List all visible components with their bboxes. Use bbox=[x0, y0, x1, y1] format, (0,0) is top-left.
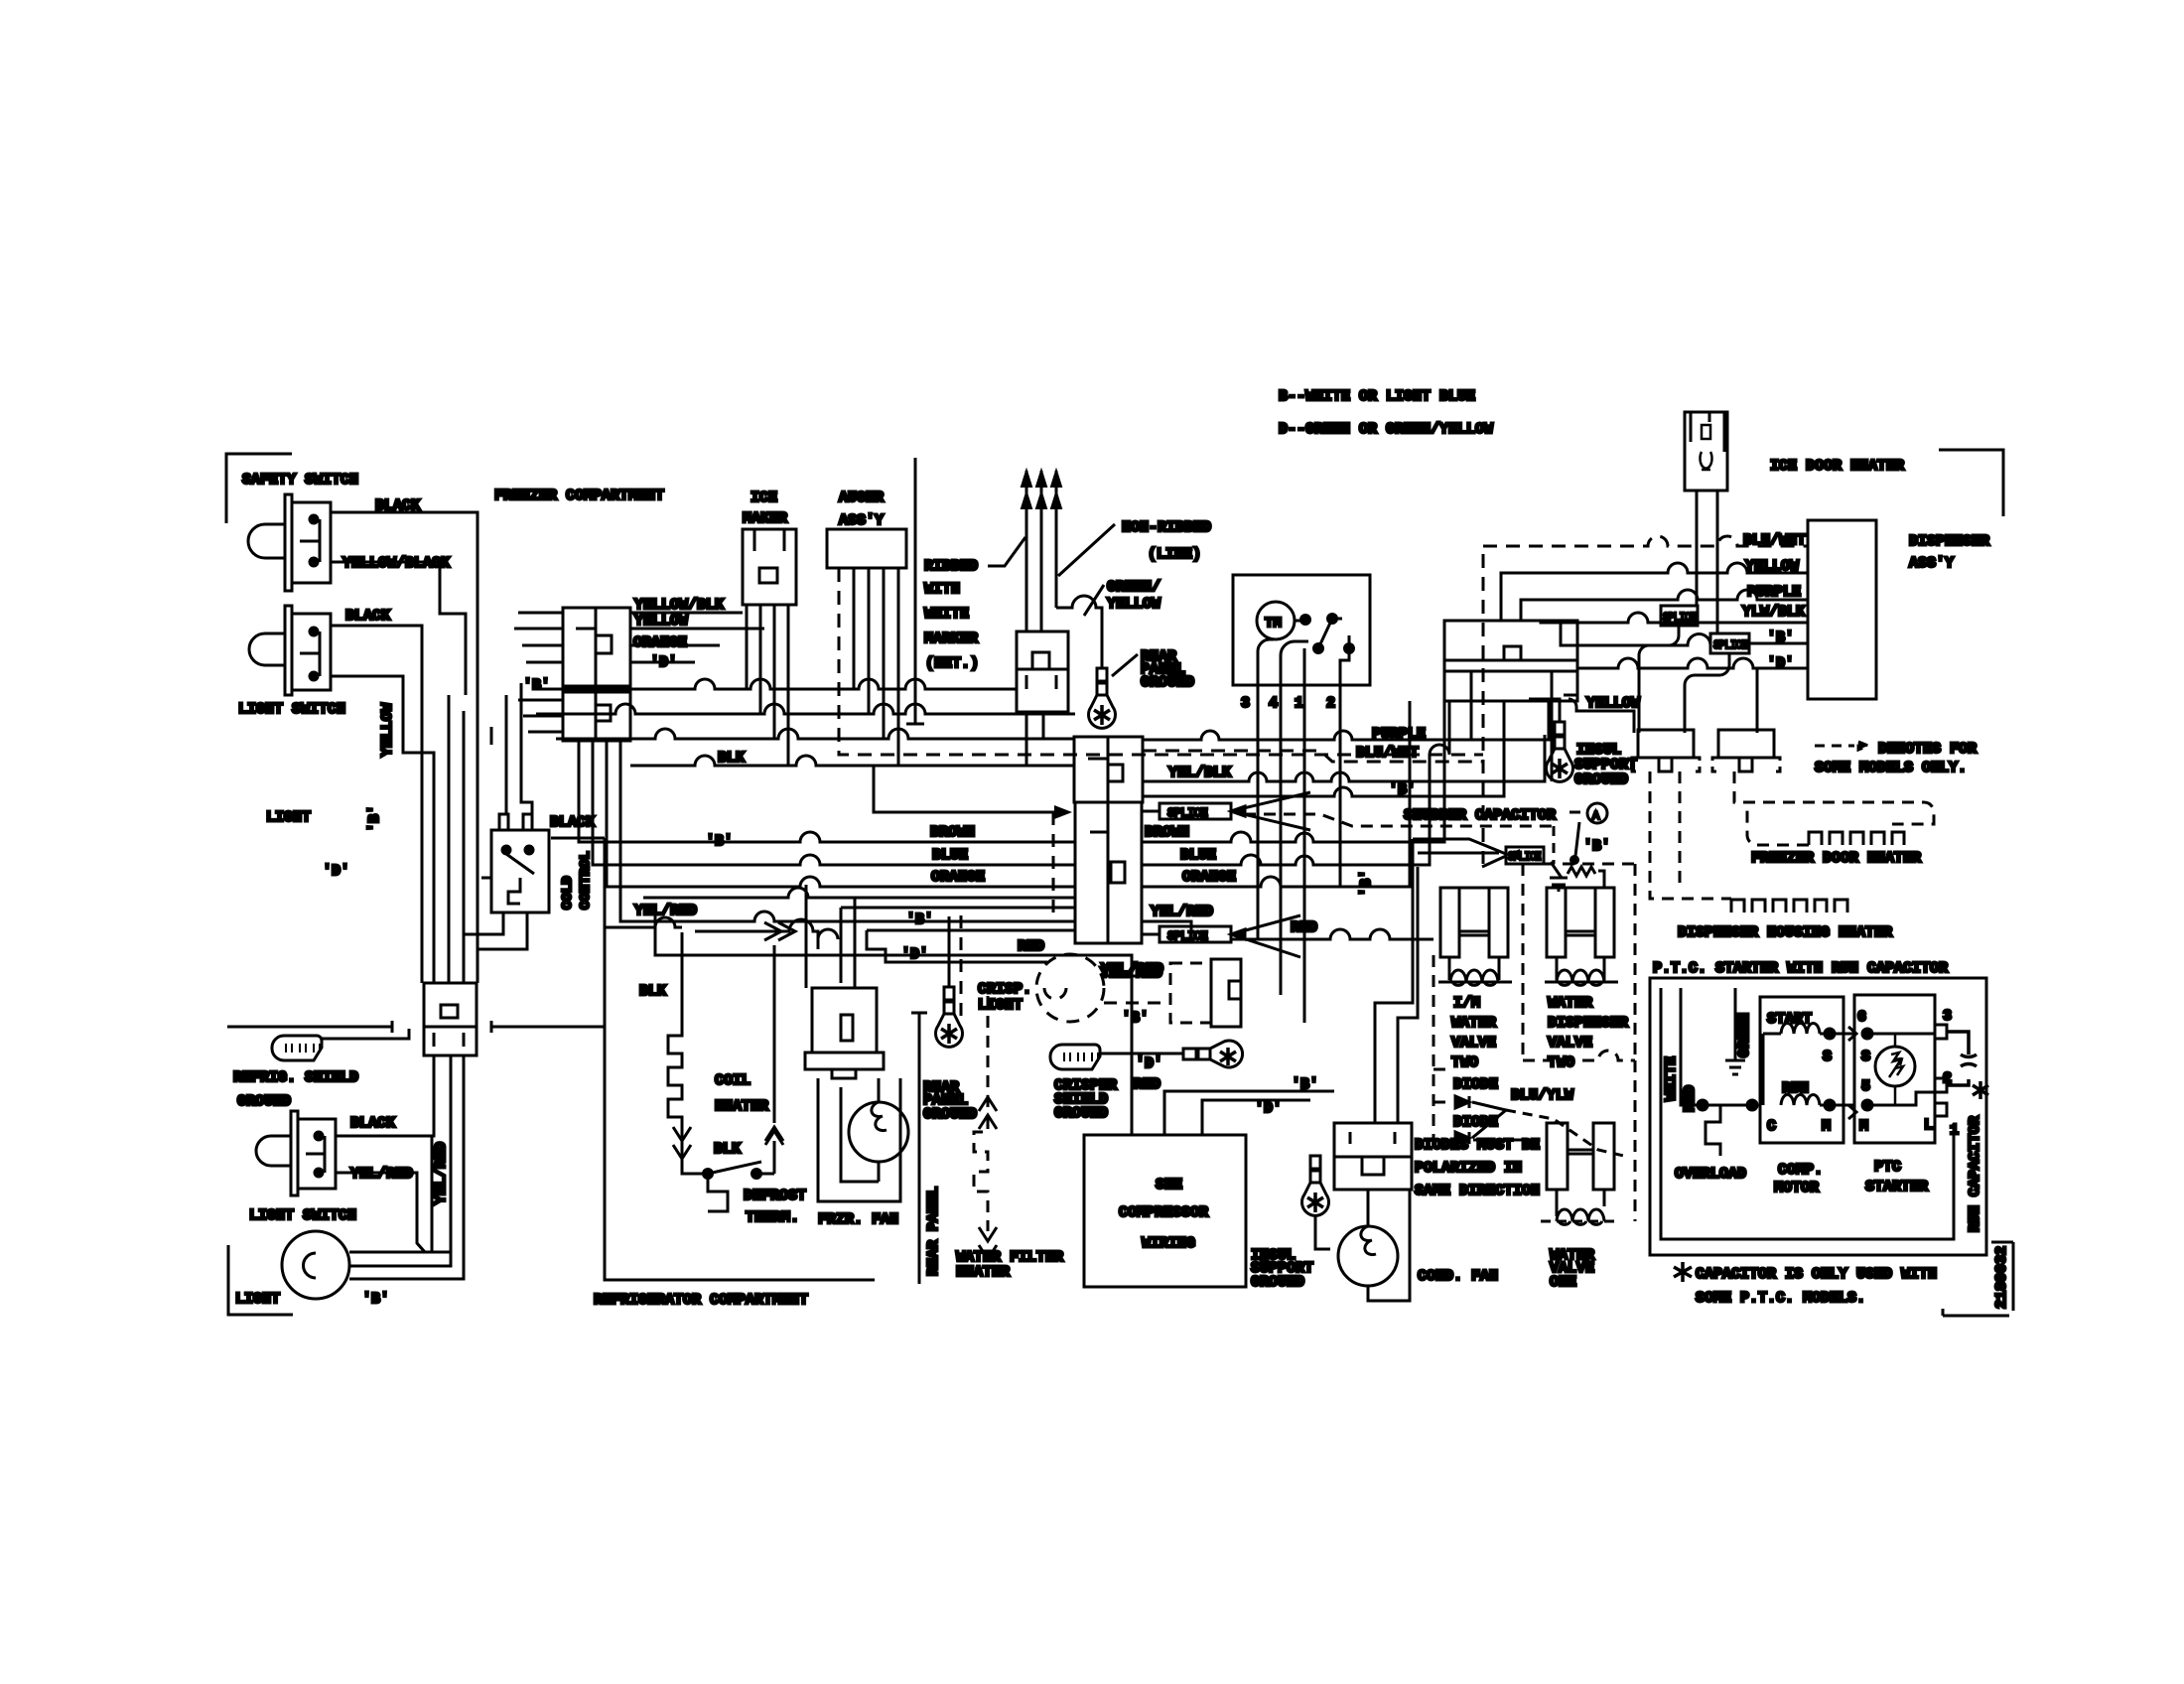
svg-text:GROUND: GROUND bbox=[1251, 1274, 1304, 1291]
circled A bbox=[1587, 803, 1607, 823]
svg-text:AUGER: AUGER bbox=[839, 490, 884, 506]
run coil bbox=[1781, 1095, 1854, 1106]
svg-text:ORANGE: ORANGE bbox=[1182, 869, 1236, 886]
svg-text:WHITE: WHITE bbox=[1663, 1056, 1680, 1101]
svg-text:2: 2 bbox=[1326, 695, 1335, 712]
svg-text:THERM.: THERM. bbox=[746, 1209, 799, 1226]
bus bar right segment bbox=[491, 1021, 605, 1033]
wire cold control to boundary bbox=[551, 837, 605, 840]
snubber capacitor sym bbox=[1571, 857, 1578, 864]
svg-text:COLD: COLD bbox=[560, 876, 576, 910]
svg-text:BLK: BLK bbox=[639, 983, 666, 1000]
cond fan connector bbox=[1334, 1123, 1412, 1190]
connector CN1 bbox=[563, 608, 630, 686]
ptc square terminals bbox=[1935, 1025, 1947, 1039]
svg-text:'B': 'B' bbox=[1358, 870, 1375, 897]
svg-text:TWO: TWO bbox=[1451, 1054, 1478, 1071]
svg-text:GROUND: GROUND bbox=[1054, 1105, 1108, 1122]
svg-text:POLARIZED IN: POLARIZED IN bbox=[1415, 1160, 1522, 1177]
svg-text:CRISP.: CRISP. bbox=[978, 981, 1031, 998]
svg-text:RED: RED bbox=[1682, 1085, 1699, 1112]
svg-text:YEL/BLK: YEL/BLK bbox=[1168, 765, 1231, 781]
crisper light dashed circle bbox=[961, 812, 1170, 1022]
svg-text:BLACK: BLACK bbox=[550, 814, 595, 831]
dashed box dispenser valve bbox=[1523, 864, 1635, 1060]
dashed bus to snubber bbox=[1244, 814, 1554, 826]
crisper shield clip bbox=[1050, 1045, 1100, 1069]
timer pin wires bbox=[1258, 685, 1340, 1023]
svg-text:DISPENSER HOUSING HEATER: DISPENSER HOUSING HEATER bbox=[1678, 924, 1892, 941]
svg-text:C: C bbox=[1767, 1118, 1776, 1135]
insul support ground right bbox=[1547, 722, 1573, 781]
svg-text:ICE: ICE bbox=[751, 490, 777, 506]
svg-text:DIODE: DIODE bbox=[1453, 1076, 1498, 1093]
svg-text:REFRIG. SHIELD: REFRIG. SHIELD bbox=[233, 1069, 358, 1086]
light corner bracket bbox=[228, 1245, 293, 1315]
svg-text:ASS'Y: ASS'Y bbox=[839, 512, 884, 529]
svg-text:SNUBBER CAPACITOR: SNUBBER CAPACITOR bbox=[1404, 807, 1556, 824]
svg-text:4: 4 bbox=[1269, 695, 1278, 712]
svg-text:BLK: BLK bbox=[714, 1141, 741, 1158]
svg-text:SPLICE: SPLICE bbox=[1713, 638, 1747, 652]
wire yellow mid bbox=[840, 908, 843, 983]
lower connector box 2 bbox=[1712, 730, 1780, 772]
svg-text:(LINE): (LINE) bbox=[1148, 546, 1201, 563]
wire clip to bus bbox=[322, 1029, 409, 1039]
power cord prongs bbox=[1022, 471, 1061, 631]
svg-text:BROWN: BROWN bbox=[1145, 824, 1189, 841]
wire from light switch lower bbox=[331, 676, 434, 983]
svg-text:FRZR. FAN: FRZR. FAN bbox=[818, 1211, 898, 1228]
svg-text:VALVE: VALVE bbox=[1548, 1035, 1592, 1052]
red wire to valve bbox=[1231, 929, 1433, 939]
svg-text:YEL/RED: YEL/RED bbox=[433, 1142, 450, 1204]
PTC outer box bbox=[1650, 978, 1986, 1255]
svg-text:S: S bbox=[1823, 1049, 1832, 1065]
dispenser housing heater meander bbox=[1731, 900, 1847, 912]
svg-text:REAR PANEL: REAR PANEL bbox=[925, 1187, 942, 1276]
wire left bundle vertical black bbox=[477, 614, 479, 983]
compressor box bbox=[1084, 1135, 1246, 1287]
svg-text:P.T.C. STARTER WITH RUN CAPACI: P.T.C. STARTER WITH RUN CAPACITOR bbox=[1653, 960, 1948, 977]
auger wires bbox=[854, 568, 898, 766]
center connector A bbox=[1444, 621, 1577, 781]
svg-text:REFRIGERATOR COMPARTMENT: REFRIGERATOR COMPARTMENT bbox=[594, 1292, 808, 1309]
rear panel boundary bbox=[911, 1013, 927, 1284]
footnote asterisk bbox=[1674, 1262, 1692, 1282]
svg-text:'B': 'B' bbox=[366, 805, 383, 832]
svg-text:MOTOR: MOTOR bbox=[1774, 1180, 1819, 1196]
wire left bundle vertical B bbox=[448, 695, 451, 983]
b bus bbox=[1143, 701, 1504, 796]
splice S1 bbox=[1143, 792, 1310, 830]
label YEL/RED coil bbox=[606, 917, 682, 927]
bus y719 bbox=[536, 704, 1075, 714]
ice door heater bracket bbox=[1939, 450, 2003, 516]
svg-text:SPLICE: SPLICE bbox=[1167, 929, 1208, 943]
connector CN4 upper bbox=[1074, 737, 1143, 802]
svg-text:COMPRESSOR: COMPRESSOR bbox=[1119, 1204, 1208, 1221]
comp motor box bbox=[1760, 997, 1843, 1143]
bus y904 bbox=[643, 888, 1075, 898]
svg-text:6: 6 bbox=[1857, 1009, 1866, 1026]
splice S2 bbox=[1143, 915, 1300, 957]
svg-text:LIGHT SWITCH: LIGHT SWITCH bbox=[249, 1207, 356, 1224]
svg-text:'B': 'B' bbox=[1122, 1010, 1149, 1027]
left bundle feeder curves bbox=[491, 683, 532, 814]
svg-text:YELLOW: YELLOW bbox=[379, 703, 396, 757]
wires into CN2 bbox=[518, 700, 563, 732]
defrost arrow up bbox=[765, 1127, 783, 1174]
svg-text:SAME DIRECTION: SAME DIRECTION bbox=[1415, 1183, 1540, 1199]
ribbed pointer bbox=[988, 537, 1025, 566]
svg-text:DEFROST: DEFROST bbox=[744, 1188, 806, 1204]
refrig shield ground clip bbox=[272, 1036, 322, 1060]
svg-text:LIGHT: LIGHT bbox=[266, 809, 311, 826]
blu/wht dashed wire disp bbox=[1483, 536, 1808, 864]
asterisk bbox=[1973, 1081, 1988, 1099]
svg-text:YELLOW/BLK: YELLOW/BLK bbox=[634, 597, 724, 614]
svg-text:RED: RED bbox=[1134, 1076, 1160, 1093]
rear panel ground lug 1 bbox=[1089, 668, 1116, 728]
svg-text:PTC: PTC bbox=[1874, 1159, 1901, 1176]
svg-text:BLU/WHT: BLU/WHT bbox=[1743, 532, 1806, 549]
svg-text:'D': 'D' bbox=[1136, 1055, 1162, 1072]
svg-text:PURPLE: PURPLE bbox=[1747, 584, 1801, 601]
svg-text:MAKER: MAKER bbox=[743, 510, 787, 527]
svg-text:STARTER: STARTER bbox=[1865, 1179, 1928, 1195]
splice S5 bbox=[1710, 633, 1808, 653]
freezer door heater meander bbox=[1809, 832, 1904, 845]
defrost therm bbox=[704, 1170, 713, 1179]
timer motor TM bbox=[1257, 602, 1295, 639]
auger assy A1 bbox=[827, 529, 906, 568]
svg-text:RUN CAPACITOR: RUN CAPACITOR bbox=[1967, 1116, 1983, 1232]
svg-text:YELLOW: YELLOW bbox=[634, 613, 688, 630]
crisper ground lug bbox=[1100, 1052, 1183, 1055]
green wire and ground bbox=[1725, 988, 1745, 1074]
timer box bbox=[1233, 575, 1370, 685]
wire b bus bbox=[841, 907, 1075, 910]
svg-text:DISPENSER: DISPENSER bbox=[1548, 1015, 1628, 1032]
svg-text:COMP.: COMP. bbox=[1778, 1162, 1823, 1179]
blue bus right bbox=[1143, 701, 1449, 865]
run capacitor sym bbox=[1947, 1032, 1977, 1085]
brown bus right bbox=[1143, 701, 1444, 842]
connector CN2 bbox=[563, 692, 630, 741]
safety switch label bracket bbox=[226, 454, 292, 523]
PTC inner wire loop bbox=[1661, 988, 1954, 1239]
svg-text:(NET.): (NET.) bbox=[925, 655, 979, 672]
splice S3 bbox=[1413, 839, 1544, 867]
svg-text:WHITE: WHITE bbox=[924, 606, 969, 623]
blu/ylw dashed bbox=[1506, 1110, 1628, 1157]
svg-text:L: L bbox=[1924, 1117, 1933, 1134]
svg-text:LIGHT SWITCH: LIGHT SWITCH bbox=[238, 701, 345, 718]
svg-text:3: 3 bbox=[1241, 695, 1250, 712]
svg-text:GROUND: GROUND bbox=[923, 1106, 977, 1123]
bus y744 bbox=[556, 729, 1074, 739]
wires down to cond fan bbox=[1375, 839, 1418, 1123]
svg-text:SEE: SEE bbox=[1156, 1177, 1182, 1193]
blu/wht dashed bus bbox=[1143, 751, 1483, 762]
svg-text:TWO: TWO bbox=[1548, 1054, 1574, 1071]
svg-text:5: 5 bbox=[1861, 1078, 1870, 1095]
svg-text:'B': 'B' bbox=[1292, 1076, 1318, 1093]
ice maker IM1 bbox=[743, 529, 796, 605]
svg-text:NON-RIBBED: NON-RIBBED bbox=[1122, 519, 1211, 536]
freezer fan motor bbox=[818, 1078, 908, 1201]
green/yellow wire to ground bbox=[1056, 596, 1102, 669]
freezer door heater dashed bbox=[1734, 772, 1934, 845]
freezer compartment boundary vertical bbox=[906, 458, 924, 724]
svg-text:RIBBED: RIBBED bbox=[924, 558, 978, 575]
svg-text:2189032: 2189032 bbox=[1993, 1246, 2010, 1309]
svg-text:SOME P.T.C. MODELS.: SOME P.T.C. MODELS. bbox=[1696, 1290, 1865, 1307]
svg-text:YELLOW: YELLOW bbox=[1107, 596, 1160, 613]
svg-text:ORANGE: ORANGE bbox=[633, 634, 687, 651]
wire d jog bbox=[818, 929, 1075, 962]
yellow wire down bbox=[1564, 695, 1634, 733]
wire red bus bbox=[655, 912, 1132, 1135]
svg-text:HEATER: HEATER bbox=[715, 1098, 768, 1115]
ice door heater component bbox=[1685, 412, 1727, 491]
svg-text:RED: RED bbox=[1018, 938, 1044, 955]
wire to fan connector bbox=[806, 885, 855, 988]
dispenser assy box bbox=[1808, 520, 1876, 699]
svg-text:'D': 'D' bbox=[1767, 655, 1794, 672]
wire arrow into connector bbox=[874, 766, 1054, 812]
dashed snubber vertical bbox=[1553, 826, 1556, 864]
safety switch SW1 bbox=[248, 494, 331, 591]
svg-text:DIODES MUST BE: DIODES MUST BE bbox=[1415, 1137, 1540, 1154]
svg-text:YEL/RED: YEL/RED bbox=[1151, 904, 1213, 920]
water dispenser valve two bbox=[1545, 888, 1618, 985]
cold control CC1 bbox=[481, 814, 549, 912]
svg-text:LIGHT: LIGHT bbox=[235, 1291, 280, 1308]
svg-text:GREEN/: GREEN/ bbox=[1107, 579, 1160, 596]
svg-text:SPLICE: SPLICE bbox=[1663, 611, 1696, 625]
svg-text:GROUND: GROUND bbox=[237, 1093, 291, 1110]
cond fan motor bbox=[1338, 1226, 1398, 1286]
legend DENOTES bbox=[1815, 742, 1868, 750]
svg-text:SPLICE: SPLICE bbox=[1167, 806, 1208, 820]
coil heater arrow down bbox=[673, 1127, 691, 1163]
svg-text:HEATER: HEATER bbox=[956, 1264, 1010, 1281]
svg-text:SOME MODELS ONLY.: SOME MODELS ONLY. bbox=[1815, 760, 1967, 776]
lower connector box 1 bbox=[1632, 730, 1700, 772]
svg-text:BLACK: BLACK bbox=[345, 608, 390, 625]
rear panel ground lug 2 bbox=[936, 987, 963, 1047]
svg-text:B--WHITE OR LIGHT BLUE: B--WHITE OR LIGHT BLUE bbox=[1279, 388, 1475, 405]
svg-text:M: M bbox=[1822, 1118, 1831, 1135]
wire cold control pins down bbox=[464, 912, 527, 949]
svg-text:DISPENSER: DISPENSER bbox=[1909, 533, 1989, 550]
non-ribbed pointer bbox=[1058, 524, 1115, 576]
svg-text:1: 1 bbox=[1950, 1122, 1959, 1139]
timer contacts bbox=[1301, 616, 1310, 625]
auger dashed wire bbox=[839, 568, 1483, 755]
svg-text:WATER: WATER bbox=[1451, 1015, 1496, 1032]
svg-text:1: 1 bbox=[1295, 695, 1303, 712]
svg-text:'D': 'D' bbox=[323, 863, 349, 880]
water filter heater dashed bbox=[974, 996, 988, 1231]
svg-text:YELLOW: YELLOW bbox=[1745, 558, 1799, 575]
svg-text:'B': 'B' bbox=[523, 677, 550, 694]
crisper connector bbox=[1170, 963, 1211, 1023]
svg-text:BLK: BLK bbox=[718, 750, 745, 767]
wires from splices to lower connectors bbox=[1639, 626, 1757, 733]
coil heater zigzag bbox=[668, 932, 682, 1140]
svg-text:FREEZER DOOR HEATER: FREEZER DOOR HEATER bbox=[1751, 850, 1921, 867]
svg-text:MARKER: MARKER bbox=[924, 631, 978, 647]
dispenser housing heater dashed bbox=[1650, 772, 1731, 899]
svg-text:FREEZER COMPARTMENT: FREEZER COMPARTMENT bbox=[494, 488, 664, 504]
svg-text:YLW/BLK: YLW/BLK bbox=[1742, 604, 1805, 621]
refrigerator compartment boundary bbox=[605, 838, 875, 1280]
wires into CN1 bbox=[514, 613, 563, 662]
svg-text:COIL: COIL bbox=[715, 1072, 751, 1089]
svg-text:3: 3 bbox=[1943, 1008, 1952, 1025]
splice S4 bbox=[1661, 606, 1698, 626]
svg-text:BLUE: BLUE bbox=[932, 847, 968, 864]
svg-text:ORANGE: ORANGE bbox=[931, 869, 985, 886]
svg-text:SAFETY SWITCH: SAFETY SWITCH bbox=[242, 472, 358, 489]
svg-text:BLU/YLW: BLU/YLW bbox=[1511, 1087, 1573, 1104]
svg-text:GREEN: GREEN bbox=[1736, 1013, 1753, 1057]
insul support ground mid bbox=[1302, 1156, 1329, 1215]
svg-text:RED: RED bbox=[1291, 919, 1317, 936]
ice maker wires bbox=[747, 605, 788, 766]
freezer fan connector CN6 bbox=[805, 988, 884, 1078]
svg-text:M: M bbox=[1859, 1118, 1868, 1135]
svg-text:'D': 'D' bbox=[1255, 1100, 1282, 1117]
PTC starter box bbox=[1854, 995, 1935, 1143]
svg-text:S: S bbox=[1861, 1049, 1870, 1065]
rear panel ground pointer bbox=[1112, 654, 1138, 676]
purple bus bbox=[1143, 701, 1549, 740]
svg-text:'B': 'B' bbox=[1583, 838, 1610, 855]
pointer to snubber bbox=[1575, 822, 1579, 856]
svg-text:CAPACITOR IS ONLY USED WITH: CAPACITOR IS ONLY USED WITH bbox=[1696, 1266, 1937, 1283]
connector CN4 tall bbox=[1075, 802, 1142, 943]
ptc terminals bbox=[1862, 1029, 1872, 1039]
start coil bbox=[1763, 1034, 1781, 1105]
overload sym bbox=[1706, 1105, 1720, 1156]
svg-text:VALVE: VALVE bbox=[1451, 1035, 1496, 1052]
cord connector CN3 bbox=[1017, 631, 1068, 712]
yel/blk bus bbox=[1143, 735, 1545, 781]
svg-text:BLACK: BLACK bbox=[350, 1115, 395, 1132]
diode dashed box bbox=[1433, 955, 1523, 1140]
svg-text:BLUE: BLUE bbox=[1180, 847, 1216, 864]
bus y771 bbox=[630, 712, 1074, 766]
wire verticals to light bbox=[349, 1055, 464, 1279]
I/M water valve bbox=[1438, 888, 1512, 985]
svg-text:TM: TM bbox=[1265, 616, 1282, 631]
svg-text:OVERLOAD: OVERLOAD bbox=[1675, 1166, 1746, 1183]
svg-text:ONE: ONE bbox=[1550, 1274, 1576, 1291]
svg-text:ASS'Y: ASS'Y bbox=[1909, 555, 1954, 572]
svg-text:'B': 'B' bbox=[362, 1291, 389, 1308]
svg-text:BROWN: BROWN bbox=[930, 824, 975, 841]
svg-text:DENOTES FOR: DENOTES FOR bbox=[1878, 741, 1977, 758]
svg-text:I/M: I/M bbox=[1453, 995, 1480, 1012]
bus bar left segment bbox=[227, 1021, 392, 1033]
ptc circle bbox=[1875, 1047, 1915, 1086]
nested wires from connector A bbox=[1501, 563, 1808, 621]
svg-text:GROUND: GROUND bbox=[1574, 772, 1628, 788]
svg-text:COND. FAN: COND. FAN bbox=[1418, 1268, 1498, 1285]
water valve one bbox=[1541, 1123, 1620, 1224]
svg-text:WATER: WATER bbox=[1548, 995, 1592, 1012]
bus y694 bbox=[536, 679, 1017, 689]
svg-text:'B': 'B' bbox=[906, 912, 933, 928]
svg-text:WIRING: WIRING bbox=[1142, 1235, 1195, 1252]
wires into compressor bbox=[1164, 1091, 1334, 1135]
svg-text:YEL/RED: YEL/RED bbox=[1101, 961, 1163, 978]
green/yellow pointer bbox=[1084, 585, 1104, 616]
light L2 bbox=[282, 1136, 432, 1299]
svg-text:WITH: WITH bbox=[924, 581, 960, 598]
ice door heater wires down bbox=[1697, 491, 1717, 633]
white/red wires bbox=[1681, 988, 1752, 1105]
svg-text:YELLOW: YELLOW bbox=[1586, 695, 1640, 712]
wire left bundle vertical D bbox=[463, 711, 466, 983]
svg-text:GROUND: GROUND bbox=[1141, 674, 1194, 691]
orange bus right bbox=[1143, 701, 1410, 887]
connector CN5 bbox=[424, 983, 477, 1055]
svg-text:ICE DOOR HEATER: ICE DOOR HEATER bbox=[1770, 458, 1904, 475]
svg-text:D--GREEN OR GREEN/YELLOW: D--GREEN OR GREEN/YELLOW bbox=[1279, 421, 1493, 438]
svg-text:LIGHT: LIGHT bbox=[978, 997, 1023, 1014]
dashed vertical right of valves bbox=[1634, 1060, 1637, 1221]
